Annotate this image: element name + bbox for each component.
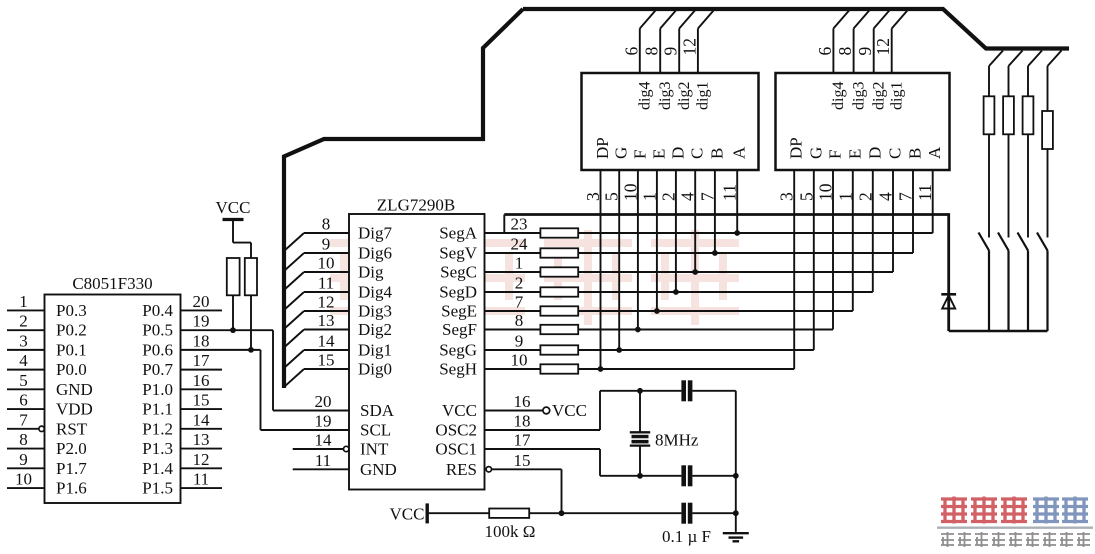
U1 pin 9 Dig6 [284,235,392,272]
wire OSC2 [485,391,601,430]
svg-text:SegG: SegG [439,341,477,360]
diode D1 [941,294,956,331]
U2 pin 16 P1.0 [142,371,222,399]
svg-text:P1.1: P1.1 [142,400,173,419]
wire key 3 top [1028,51,1042,97]
svg-text:3: 3 [19,331,28,350]
svg-text:9: 9 [322,235,331,254]
LED2 pin 12 dig1 [873,10,908,111]
wire seg row 3 [578,271,893,273]
svg-text:F: F [826,150,845,159]
U1 pin 13 Dig2 [284,311,392,348]
U2 pin 5 GND [7,371,93,399]
svg-text:P1.7: P1.7 [56,459,87,478]
svg-text:dig1: dig1 [889,82,906,110]
svg-text:SCL: SCL [360,421,391,440]
svg-text:1: 1 [835,192,855,201]
U1 pin 14 Dig1 [284,332,392,369]
svg-text:18: 18 [193,331,210,350]
IC U1 ZLG7290B [349,196,485,490]
svg-text:6: 6 [815,47,835,56]
wire key 4 mid [1047,149,1049,238]
capacitor C1 [681,380,692,401]
svg-text:0.1 µ F: 0.1 µ F [662,527,711,546]
resistor RK2 [1003,96,1014,134]
svg-text:F: F [630,150,649,159]
wire osc right [733,391,739,532]
U2 pin 9 P1.7 [7,450,87,478]
svg-text:B: B [707,148,726,159]
capacitor C3 0.1uF [662,503,711,546]
wire SCL net [261,350,350,430]
svg-text:5: 5 [602,192,622,201]
svg-text:SegA: SegA [439,224,478,243]
wire LED1 col to seg7 [616,170,622,353]
svg-text:24: 24 [511,235,529,254]
svg-text:9: 9 [515,332,524,351]
svg-text:11: 11 [720,184,740,201]
U2 pin 11 P1.5 [142,470,222,498]
LED1 pin 10 segment F [620,150,649,201]
resistor RS2 [540,248,578,257]
U2 pin 4 P0.0 [7,351,87,379]
wire osc bottom rail [600,473,739,479]
U1 pin 11 Dig4 [284,274,393,311]
svg-text:P0.1: P0.1 [56,340,87,359]
U2 pin 1 P0.3 [7,292,87,320]
svg-text:dig3: dig3 [850,82,867,110]
U1 pin 18 OSC2 label [435,412,530,440]
svg-text:11: 11 [915,184,935,201]
wire LED2 col to seg4 [872,170,874,292]
svg-text:15: 15 [514,451,531,470]
svg-text:P0.2: P0.2 [56,321,87,340]
svg-text:VDD: VDD [56,400,93,419]
svg-text:12: 12 [679,38,699,56]
wire seg row 8 [578,368,794,370]
svg-text:4: 4 [19,351,28,370]
svg-text:23: 23 [511,215,528,234]
wire SDA net [273,330,349,410]
wire LED2 col to seg6 [832,170,834,330]
svg-text:19: 19 [193,312,210,331]
svg-text:RST: RST [56,419,88,438]
wire LED2 col to seg1 [932,170,934,233]
svg-text:DP: DP [593,137,612,159]
svg-text:7: 7 [19,410,28,429]
svg-text:P1.5: P1.5 [142,479,173,498]
wire LED2 col to seg3 [892,170,894,272]
wire res row [529,510,736,516]
svg-text:3: 3 [777,192,797,201]
svg-text:Dig3: Dig3 [358,302,392,321]
U1 pin 8 Dig7 [284,215,393,252]
svg-text:8: 8 [642,47,662,56]
svg-text:16: 16 [193,371,210,390]
svg-text:P2.0: P2.0 [56,439,87,458]
U2 pin 17 P0.7 [142,351,222,379]
svg-text:10: 10 [511,351,528,370]
IC U2 C8051F330 [45,274,181,503]
svg-text:14: 14 [318,332,336,351]
svg-text:P1.4: P1.4 [142,459,173,478]
svg-text:VCC: VCC [216,198,251,217]
svg-text:E: E [845,149,864,159]
wire key 2 bottom [1007,251,1009,332]
resistor RS7 [540,345,578,354]
LED1 pin 11 segment A [720,146,749,201]
svg-text:1: 1 [639,192,659,201]
LED1 pin 4 segment C [678,148,707,201]
capacitor C2 [681,465,692,486]
wire LED1 col to seg2 [712,170,718,256]
svg-text:D: D [668,147,687,159]
U1 pin 12 Dig3 [284,293,392,330]
svg-text:P0.5: P0.5 [142,321,173,340]
wire RES [486,467,561,514]
svg-text:OSC1: OSC1 [435,440,477,459]
wire LED1 col to seg3 [692,170,698,275]
LED1 pin 12 dig1 [679,10,714,111]
svg-text:GND: GND [56,380,93,399]
svg-text:15: 15 [318,351,335,370]
LED1 pin 3 segment DP [583,137,612,201]
svg-text:VCC: VCC [390,505,425,524]
svg-text:9: 9 [19,450,28,469]
decor [330,230,739,325]
svg-text:10: 10 [15,470,32,489]
svg-text:C8051F330: C8051F330 [72,274,152,293]
svg-text:4: 4 [876,192,896,201]
wire key 2 mid [1008,134,1010,237]
svg-text:ZLG7290B: ZLG7290B [377,196,455,215]
svg-text:1: 1 [515,254,524,273]
svg-text:13: 13 [193,430,210,449]
resistor RS1 [540,228,578,237]
LED1 pin 9 dig2 [661,10,696,111]
svg-text:8: 8 [515,311,524,330]
wire LED1 col to seg1 [734,170,740,236]
svg-text:P1.2: P1.2 [142,419,173,438]
LED2 pin 8 dig3 [835,10,870,111]
svg-text:10: 10 [318,254,335,273]
resistor RS4 [540,287,578,296]
LED1 pin 1 segment E [639,149,668,201]
resistor R3 100k [485,509,536,541]
svg-text:Dig2: Dig2 [358,320,392,339]
U1 pin 11 GND label [315,451,397,479]
wire LED2 col to seg7 [813,170,815,350]
svg-text:20: 20 [315,392,332,411]
svg-text:14: 14 [193,410,211,429]
wire seg23 branch to keys [504,215,948,295]
svg-text:8: 8 [322,215,331,234]
svg-text:8MHz: 8MHz [655,431,699,450]
svg-text:19: 19 [315,412,332,431]
U1 pin 11 GND wire [293,468,349,470]
U1 pin 15 RES label [446,451,531,479]
svg-text:Dig0: Dig0 [358,360,392,379]
U2 pin 20 P0.4 [142,292,222,320]
LED2 pin 9 dig2 [855,10,890,111]
svg-text:dig3: dig3 [657,82,674,110]
LED2 pin 6 dig4 [815,10,850,111]
LED1 pin 8 dig3 [642,10,677,111]
wire LED2 col to seg8 [793,170,795,369]
U2 pin 6 VDD [7,391,93,419]
U2 pin 10 P1.6 [7,470,87,498]
U2 pin 8 P2.0 [7,430,87,458]
resistor RS6 [540,325,578,334]
LED1 pin 6 dig4 [621,10,656,111]
decor logo [937,497,1093,548]
wire key 3 bottom [1027,251,1029,332]
svg-text:Dig7: Dig7 [358,224,393,243]
LED2 pin 5 segment G [796,147,825,201]
svg-text:C: C [688,148,707,159]
svg-text:100k Ω: 100k Ω [485,522,536,541]
svg-text:17: 17 [514,431,532,450]
svg-text:11: 11 [318,274,334,293]
svg-text:dig2: dig2 [676,82,693,110]
wire LED1 col to seg8 [598,170,604,372]
U1 pin 8 SegF [442,311,540,339]
svg-text:5: 5 [19,371,28,390]
resistor RS5 [540,306,578,315]
svg-text:VCC: VCC [442,401,477,420]
svg-text:SegC: SegC [440,263,477,282]
resistor R2 pullup SCL [245,258,257,295]
U2 pin 19 P0.5 [142,312,273,340]
LED2 pin 10 segment F [816,150,845,201]
svg-text:11: 11 [193,470,209,489]
svg-text:9: 9 [855,47,875,56]
svg-text:2: 2 [855,192,875,201]
resistor RS8 [540,364,578,373]
switch S4 [1037,233,1048,251]
power VCC2 [390,503,428,523]
wire seg row 1 [578,232,933,234]
U2 pin 15 P1.1 [142,391,222,419]
svg-text:SegV: SegV [439,244,478,263]
switch S1 [979,233,990,251]
U2 pin 18 P0.6 [142,331,260,359]
svg-text:1: 1 [19,292,28,311]
U1 pin 17 OSC1 label [435,431,531,459]
svg-text:DP: DP [787,137,806,159]
svg-text:Dig4: Dig4 [358,283,393,302]
svg-text:2: 2 [19,312,28,331]
svg-text:SDA: SDA [360,401,395,420]
svg-text:7: 7 [896,192,916,201]
resistor RK4 [1042,111,1053,149]
svg-text:A: A [730,146,749,159]
svg-text:13: 13 [318,311,335,330]
wire key 2 top [1009,51,1023,97]
svg-text:11: 11 [315,451,331,470]
svg-text:12: 12 [193,450,210,469]
svg-text:C: C [886,148,905,159]
crystal Y1 8MHz [630,391,699,476]
svg-text:Dig6: Dig6 [358,244,392,263]
wire vcc stem [233,220,251,259]
resistor RK3 [1023,96,1034,134]
svg-text:12: 12 [873,38,893,56]
svg-text:P0.7: P0.7 [142,360,173,379]
resistor RS3 [540,267,578,276]
svg-text:Dig: Dig [358,263,384,282]
svg-text:5: 5 [796,192,816,201]
LED2 pin 1 segment E [835,149,864,201]
svg-text:2: 2 [515,274,524,293]
svg-text:7: 7 [697,192,717,201]
LED1 pin 5 segment G [602,147,631,201]
svg-text:16: 16 [514,392,531,411]
U1 pin 14 INT label [315,431,389,459]
svg-text:P0.6: P0.6 [142,340,173,359]
svg-text:20: 20 [193,292,210,311]
svg-text:15: 15 [193,391,210,410]
svg-text:P1.0: P1.0 [142,380,173,399]
wire bus top [523,9,1069,49]
U1 pin 24 SegV [439,235,540,263]
wire seg row 4 [578,291,873,293]
U1 pin 15 Dig0 [284,351,392,388]
wire bus left [284,9,523,388]
LED2 pin 2 segment D [855,147,884,201]
svg-text:Dig1: Dig1 [358,341,392,360]
svg-text:dig2: dig2 [871,82,888,110]
svg-text:RES: RES [446,460,477,479]
svg-text:6: 6 [621,47,641,56]
svg-text:dig1: dig1 [695,82,712,110]
resistor R1 pullup SDA [227,258,240,295]
wire R2 lead [250,295,252,350]
U1 pin 19 SCL label [315,412,392,440]
svg-text:E: E [649,149,668,159]
wire key 1 top [989,51,1003,97]
svg-text:G: G [612,147,631,159]
svg-text:P0.0: P0.0 [56,360,87,379]
U1 pin 1 SegC [440,254,540,282]
wire seg row 6 [578,329,833,331]
switch S2 [998,233,1009,251]
wire LED1 col to seg5 [654,170,660,314]
wire LED1 col to seg6 [635,170,641,332]
svg-text:8: 8 [19,430,28,449]
U1 pin 10 SegH [439,351,540,379]
wire seg row 2 [578,252,913,254]
svg-text:SegE: SegE [441,302,477,321]
svg-text:P1.6: P1.6 [56,479,87,498]
svg-text:GND: GND [360,460,397,479]
wire R1 lead [232,295,234,330]
svg-text:P0.3: P0.3 [56,301,87,320]
svg-text:10: 10 [816,183,836,201]
wire key 1 bottom [988,251,990,332]
LED1 pin 7 segment B [697,148,726,201]
svg-text:7: 7 [515,293,524,312]
svg-text:6: 6 [19,391,28,410]
ground [723,533,749,541]
svg-text:8: 8 [835,47,855,56]
LED2 pin 3 segment DP [777,137,806,201]
U2 pin 12 P1.4 [142,450,222,478]
U2 pin 13 P1.3 [142,430,222,458]
U1 pin 14 INT wire [293,446,349,451]
svg-text:P0.4: P0.4 [142,301,173,320]
wire keys common [949,330,1048,332]
svg-text:SegH: SegH [439,360,477,379]
wire LED2 col to seg5 [852,170,854,311]
svg-text:dig4: dig4 [830,82,847,110]
U1 pin 23 SegA [439,215,540,243]
svg-text:SegD: SegD [439,283,477,302]
wire LED2 col to seg2 [912,170,914,253]
wire key 1 mid [988,134,990,237]
svg-text:10: 10 [620,183,640,201]
svg-text:B: B [906,148,925,159]
svg-text:P1.3: P1.3 [142,439,173,458]
wire seg row 7 [578,349,814,351]
svg-text:18: 18 [514,412,531,431]
svg-text:12: 12 [318,293,335,312]
wire OSC1 [485,449,601,476]
LED2 pin 7 segment B [896,148,925,201]
wire key 4 top [1048,51,1062,112]
U2 pin 2 P0.2 [7,312,87,340]
svg-text:4: 4 [678,192,698,201]
svg-text:SegF: SegF [442,320,477,339]
wire seg row 5 [578,310,853,312]
switch S3 [1018,233,1029,251]
svg-text:D: D [865,147,884,159]
resistor RK1 [984,96,995,134]
svg-text:A: A [925,146,944,159]
LED1 pin 2 segment D [658,147,687,201]
display LED2 4-digit [776,73,950,170]
wire vcc to R3 [428,512,489,514]
LED2 pin 4 segment C [876,148,905,201]
wire osc top rail [600,388,736,394]
wire LED1 col to seg4 [673,170,679,295]
svg-text:VCC: VCC [552,401,587,420]
U2 pin 14 P1.2 [142,410,222,438]
svg-text:G: G [806,147,825,159]
svg-text:9: 9 [661,47,681,56]
svg-text:OSC2: OSC2 [435,421,477,440]
U1 pin 10 Dig [284,254,384,291]
U2 pin 3 P0.1 [7,331,87,359]
power VCC pin16 [485,401,587,420]
svg-text:INT: INT [360,440,389,459]
wire key 3 mid [1027,134,1029,237]
display LED1 4-digit [582,73,759,170]
svg-text:dig4: dig4 [637,82,654,110]
U1 pin 7 SegE [441,293,540,321]
power VCC1 [216,198,251,220]
svg-text:14: 14 [315,431,333,450]
U1 pin 2 SegD [439,274,540,302]
U1 pin 9 SegG [439,332,540,360]
LED2 pin 11 segment A [915,146,944,201]
svg-text:3: 3 [583,192,603,201]
U2 pin 7 RST [7,410,88,438]
U1 pin 16 VCC label [442,392,530,420]
U1 pin 20 SDA label [315,392,395,420]
svg-text:17: 17 [193,351,211,370]
svg-text:2: 2 [658,192,678,201]
